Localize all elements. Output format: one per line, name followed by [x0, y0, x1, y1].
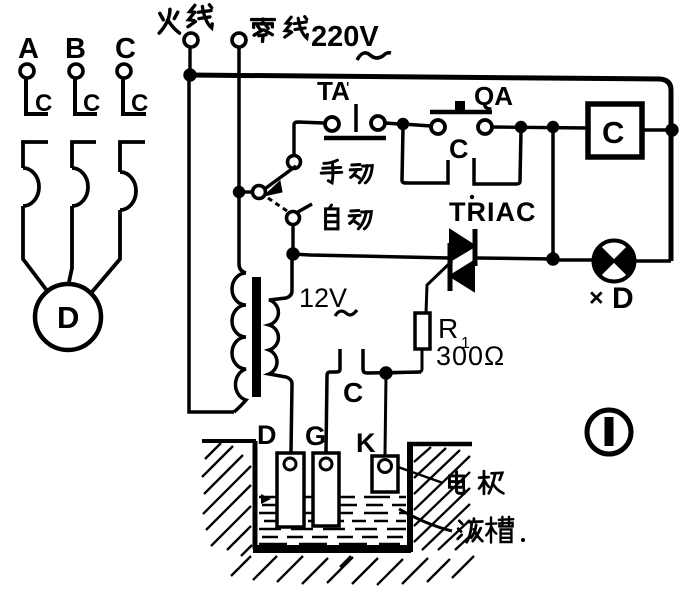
svg-text:D: D: [57, 300, 79, 335]
svg-text:D: D: [257, 420, 277, 450]
selector dashed throw: [268, 198, 287, 211]
hatch left: [202, 443, 252, 556]
svg-text:C: C: [602, 115, 624, 150]
node right edge: [667, 125, 677, 135]
svg-text:C: C: [83, 90, 100, 117]
phase B wire + contact C: [75, 78, 97, 114]
node right of QA: [517, 123, 526, 132]
ground left edge: [202, 439, 256, 443]
terminal lingxian: [232, 33, 246, 47]
node lamp left: [548, 254, 558, 264]
wire to selector: [239, 190, 252, 193]
svg-text:C: C: [449, 134, 469, 164]
motor D: [35, 284, 101, 350]
electrode D: [277, 453, 304, 527]
node lamp branch: [549, 123, 558, 132]
liquid level marker: [261, 494, 271, 504]
svg-text:': ': [346, 79, 349, 99]
electrode G: [313, 453, 339, 526]
hatch right: [414, 447, 470, 550]
svg-text:C: C: [343, 377, 363, 408]
contact TA: [325, 117, 339, 131]
wire huoxian down: [188, 47, 191, 74]
selector common: [253, 186, 266, 199]
svg-text:TRIAC: TRIAC: [449, 197, 537, 227]
svg-text:G: G: [305, 421, 326, 451]
resistor R1: [415, 313, 430, 349]
contact zidong: [287, 212, 300, 225]
svg-text:12V: 12V: [299, 283, 347, 313]
terminal A: [20, 64, 34, 78]
leader yecao: [399, 509, 452, 531]
node junction top-left: [185, 70, 195, 80]
selector blade: [266, 166, 296, 188]
svg-text:K: K: [356, 428, 376, 458]
terminal C: [117, 64, 131, 78]
svg-text:300Ω: 300Ω: [436, 341, 505, 371]
wire QA to coil: [492, 127, 588, 128]
triac symbol: [450, 229, 475, 291]
svg-text:C: C: [131, 90, 148, 117]
wire K electrode: [385, 375, 386, 455]
figure number 1: [587, 410, 631, 454]
wire node to lamp: [553, 258, 593, 261]
svg-text:×: ×: [589, 284, 604, 312]
wire R1 bottom: [390, 349, 422, 373]
electrode K: [372, 456, 398, 492]
wire live vertical: [189, 80, 234, 412]
phase A wire + contact C: [26, 78, 48, 114]
wire MT1: [293, 254, 449, 258]
label yecao: [458, 519, 483, 543]
wire MT2: [477, 258, 553, 259]
leader dianji: [398, 467, 443, 483]
terminal B: [69, 64, 83, 78]
svg-text:B: B: [65, 33, 86, 65]
primary winding: [232, 273, 246, 412]
coil C box: [588, 104, 642, 157]
wire TA to node: [385, 123, 399, 124]
label zidong: [326, 205, 338, 229]
tank bottom: [253, 545, 411, 553]
svg-text:220V: 220V: [311, 21, 379, 53]
svg-text:C: C: [115, 33, 136, 65]
secondary winding: [269, 253, 292, 452]
svg-text:QA: QA: [474, 81, 513, 111]
liquid dashes: [259, 497, 406, 544]
wire top bus: [188, 75, 671, 261]
wire zidong down: [291, 225, 294, 250]
node K branch: [381, 368, 391, 378]
label huoxian: [159, 9, 179, 33]
svg-text:D: D: [612, 282, 634, 315]
svg-text:TA: TA: [317, 76, 350, 106]
contact shoudong: [288, 156, 301, 169]
wire lamp branch vertical: [551, 131, 555, 259]
contact C secondary: [326, 349, 340, 452]
wire gate: [426, 261, 452, 313]
label dianji: [449, 472, 464, 494]
wire node to QA: [403, 124, 431, 126]
node secondary top junction: [288, 249, 298, 259]
svg-text:R: R: [438, 313, 458, 344]
lamp XD: [594, 241, 635, 282]
wire shoudong to TA: [294, 122, 324, 156]
node left of QA: [399, 120, 408, 129]
wire coil to right edge: [642, 128, 671, 131]
hatch bottom: [231, 556, 474, 585]
phase C wire + contact C: [123, 78, 146, 114]
label lingxian: [252, 19, 275, 41]
terminal huoxian: [184, 33, 198, 47]
ground right edge: [407, 442, 472, 447]
label shoudong: [321, 160, 342, 183]
node selector tap: [235, 188, 244, 197]
wire neutral vertical: [239, 47, 246, 273]
wire right edge to lamp: [636, 259, 671, 262]
tank right wall: [407, 443, 413, 552]
svg-text:C: C: [35, 90, 52, 117]
svg-text:A: A: [18, 33, 39, 65]
contact C parallel QA: [402, 128, 448, 183]
transformer core: [252, 277, 261, 397]
